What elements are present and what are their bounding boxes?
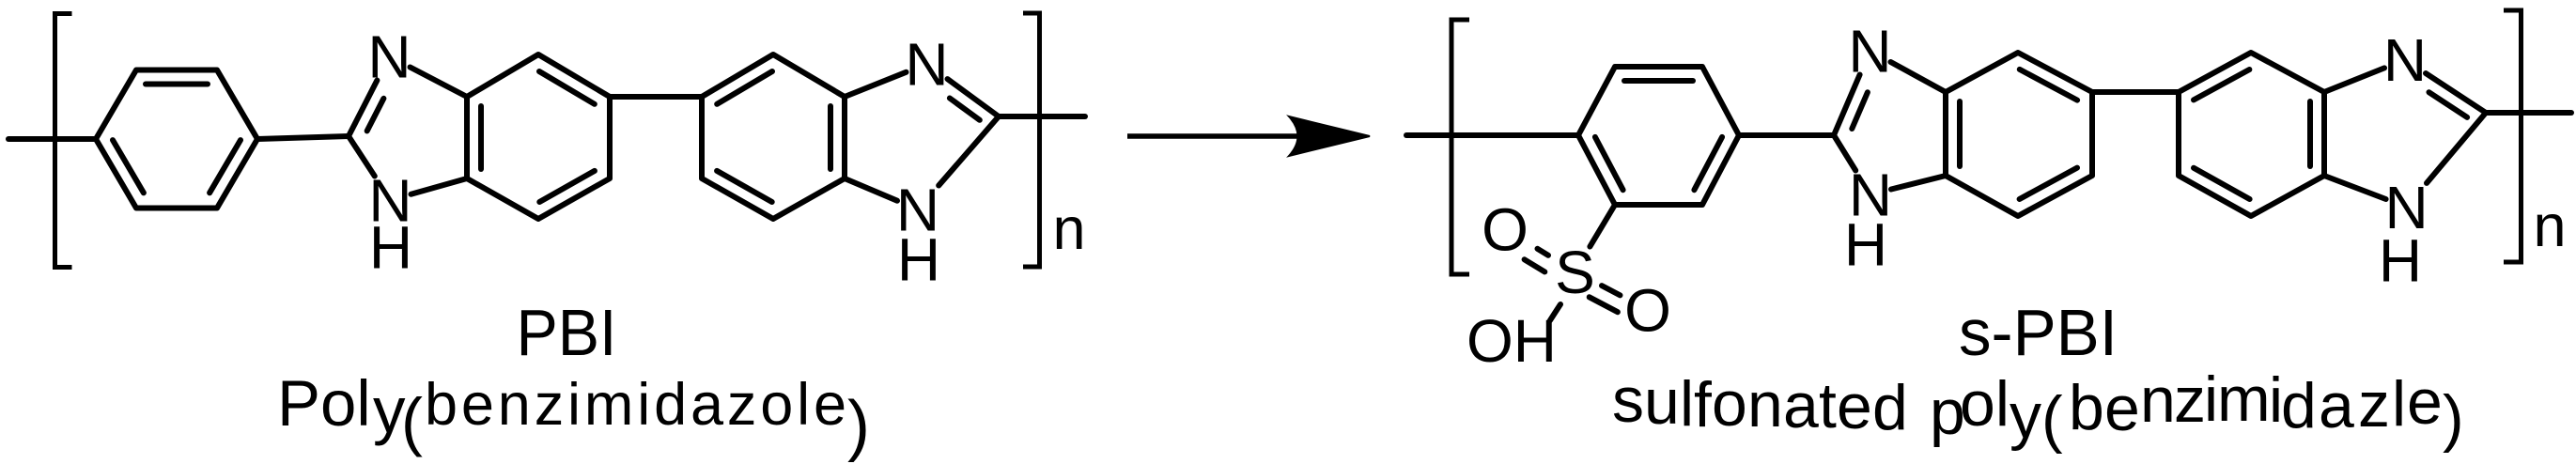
left bracket of PBI repeat unit xyxy=(55,14,72,268)
double bond inner line, ring C lower-left edge xyxy=(1595,137,1623,190)
svg-text:OH: OH xyxy=(1466,307,1557,375)
svg-text:N: N xyxy=(367,23,411,91)
svg-text:(: ( xyxy=(2041,383,2063,455)
svg-text:): ) xyxy=(2443,382,2464,454)
double bond inner line, benzo3 lower-right edge xyxy=(2020,168,2077,199)
svg-text:PBI: PBI xyxy=(517,296,617,369)
bond ring C to sulfonyl S xyxy=(1590,205,1615,247)
double bond inner line, benzo1 lower-right edge xyxy=(539,171,595,202)
benzo ring of benzimidazole 2 xyxy=(702,54,845,219)
right bracket of PBI repeat unit xyxy=(1023,13,1040,267)
double bond inner line, benzo2 fused edge C3a'-C7a' xyxy=(828,106,833,169)
svg-text:H: H xyxy=(2379,227,2422,295)
benzene ring C (sulfonated phenylene) xyxy=(1578,67,1739,205)
svg-text:Pol: Pol xyxy=(277,367,371,440)
double bond C2=N3 of imidazole 1 xyxy=(349,81,377,137)
double bond inner line, benzo2 upper-left edge xyxy=(717,71,772,104)
svg-text:H: H xyxy=(1844,211,1887,279)
double bond inner line, benzo1 upper-right edge xyxy=(539,71,595,104)
double bond N3'=C2' of imidazole 2 xyxy=(948,79,1000,116)
svg-text:N: N xyxy=(2383,26,2427,94)
double bond inner line, benzo3 upper-right edge xyxy=(2020,70,2077,101)
double bond inner line, benzo2 lower-left edge xyxy=(717,171,772,202)
svg-text:): ) xyxy=(847,388,870,463)
double bond inner line, benzo4 fused edge xyxy=(2307,101,2313,166)
bond C2'-N1' of imidazole 2 xyxy=(939,116,999,186)
bond ring C to C2 of benzimidazole 3 xyxy=(1739,132,1834,138)
svg-text:ol: ol xyxy=(1960,368,2010,440)
svg-text:n: n xyxy=(2533,193,2566,259)
double bond inner line, benzo1 fused edge C3a-C7a xyxy=(478,106,484,169)
double bond S=O upper-left xyxy=(1538,249,1549,255)
svg-text:s-PBI: s-PBI xyxy=(1959,296,2118,369)
bond C3a-N3 of imidazole 4 xyxy=(2324,68,2384,92)
bond C7a-N1 of imidazole 3 xyxy=(1891,176,1946,190)
svg-text:n: n xyxy=(1052,196,1085,262)
double bond inner line, ring A lower-right edge xyxy=(209,140,241,193)
double bond S=O lower-right xyxy=(1602,286,1621,295)
bond C3a'-N3' of imidazole 2 xyxy=(845,72,907,97)
bond N1-C2 of imidazole 1 xyxy=(349,136,375,177)
bond N3-C3a of imidazole 1 xyxy=(411,68,468,98)
svg-text:(: ( xyxy=(401,385,423,457)
wire: polymer chain bond entering right structure xyxy=(1406,132,1578,138)
bond ring A to C2 of benzimidazole 1 xyxy=(257,136,349,139)
bond N1-C2 of imidazole 3 xyxy=(1834,135,1855,171)
benzo ring of benzimidazole 3 xyxy=(1946,53,2092,216)
benzo ring of benzimidazole 1 xyxy=(467,54,610,219)
right bracket of s-PBI repeat unit xyxy=(2504,10,2522,262)
reaction arrow xyxy=(1127,133,1302,139)
wire: polymer chain bond entering left structure xyxy=(8,136,96,142)
double bond inner line, benzo3 fused edge xyxy=(1957,101,1963,166)
biphenyl-type link bond benzo3 to benzo4 xyxy=(2092,89,2179,95)
biphenyl-type link bond benzo1 to benzo2 xyxy=(610,94,702,100)
svg-text:O: O xyxy=(1482,196,1529,264)
wire: polymer chain bond exiting right structure xyxy=(2486,110,2571,116)
double bond inner line, ring C top edge xyxy=(1624,78,1693,84)
svg-text:H: H xyxy=(369,214,412,282)
svg-text:benzimidazle: benzimidazle xyxy=(2069,363,2443,444)
double bond inner line, benzo4 upper-left edge xyxy=(2194,70,2249,100)
wire: polymer chain bond exiting left structure xyxy=(999,114,1085,119)
bond C7a-N1 of imidazole 1 xyxy=(411,178,468,194)
benzo ring of benzimidazole 4 xyxy=(2179,53,2324,216)
bond C2-N1 of imidazole 4 xyxy=(2427,113,2486,183)
bond N3-C3a of imidazole 3 xyxy=(1891,62,1947,92)
bond N1-C7a of imidazole 4 xyxy=(2324,176,2386,199)
svg-text:sulfonated: sulfonated xyxy=(1612,364,1908,443)
svg-text:y: y xyxy=(2010,380,2041,452)
bond N1'-C7a' of imidazole 2 xyxy=(845,178,897,201)
double bond C2=N3 of imidazole 3 xyxy=(1834,75,1860,136)
double bond N3=C2 of imidazole 4 xyxy=(2426,73,2486,113)
double bond inner line, ring C lower-right edge xyxy=(1694,137,1722,190)
svg-text:N: N xyxy=(1848,18,1891,85)
svg-text:H: H xyxy=(897,226,940,294)
double bond inner line, benzo4 lower-left edge xyxy=(2194,168,2250,199)
double bond inner line, ring A top edge xyxy=(146,82,208,87)
svg-text:O: O xyxy=(1624,277,1671,345)
double bond inner line, ring A lower-left edge xyxy=(113,140,144,193)
benzene ring A (para-phenylene) xyxy=(96,70,257,209)
bond S-OH of sulfonic acid xyxy=(1550,304,1560,320)
left bracket of s-PBI repeat unit xyxy=(1451,20,1469,274)
svg-text:N: N xyxy=(905,31,948,99)
